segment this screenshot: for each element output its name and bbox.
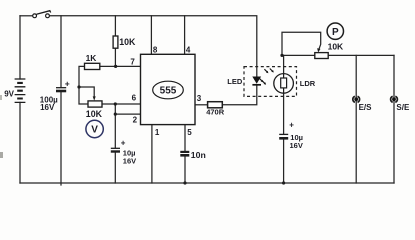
svg-text:4: 4 <box>186 46 191 55</box>
svg-text:S/E: S/E <box>396 103 410 112</box>
svg-text:10n: 10n <box>191 150 206 160</box>
svg-text:470R: 470R <box>206 108 225 117</box>
svg-text:9V: 9V <box>4 89 14 98</box>
svg-text:3: 3 <box>197 94 202 103</box>
svg-text:+: + <box>289 121 294 130</box>
svg-text:8: 8 <box>153 46 158 55</box>
svg-text:V: V <box>91 125 98 136</box>
svg-text:10K: 10K <box>119 37 136 47</box>
svg-text:+: + <box>65 79 70 89</box>
svg-text:16V: 16V <box>123 156 136 165</box>
svg-text:6: 6 <box>132 93 137 102</box>
svg-text:10K: 10K <box>328 42 344 52</box>
svg-text:P: P <box>332 27 339 38</box>
svg-text:555: 555 <box>160 86 177 97</box>
svg-text:LED: LED <box>227 77 243 86</box>
svg-text:1: 1 <box>155 128 160 137</box>
svg-text:10K: 10K <box>86 109 103 119</box>
svg-text:16V: 16V <box>40 103 55 112</box>
svg-text:5: 5 <box>187 128 192 137</box>
svg-text:1K: 1K <box>86 53 97 63</box>
svg-text:7: 7 <box>130 57 135 66</box>
svg-text:2: 2 <box>133 116 138 125</box>
svg-text:E/S: E/S <box>359 103 373 112</box>
svg-text:LDR: LDR <box>300 79 316 88</box>
svg-text:16V: 16V <box>290 141 303 150</box>
svg-text:+: + <box>121 139 126 148</box>
